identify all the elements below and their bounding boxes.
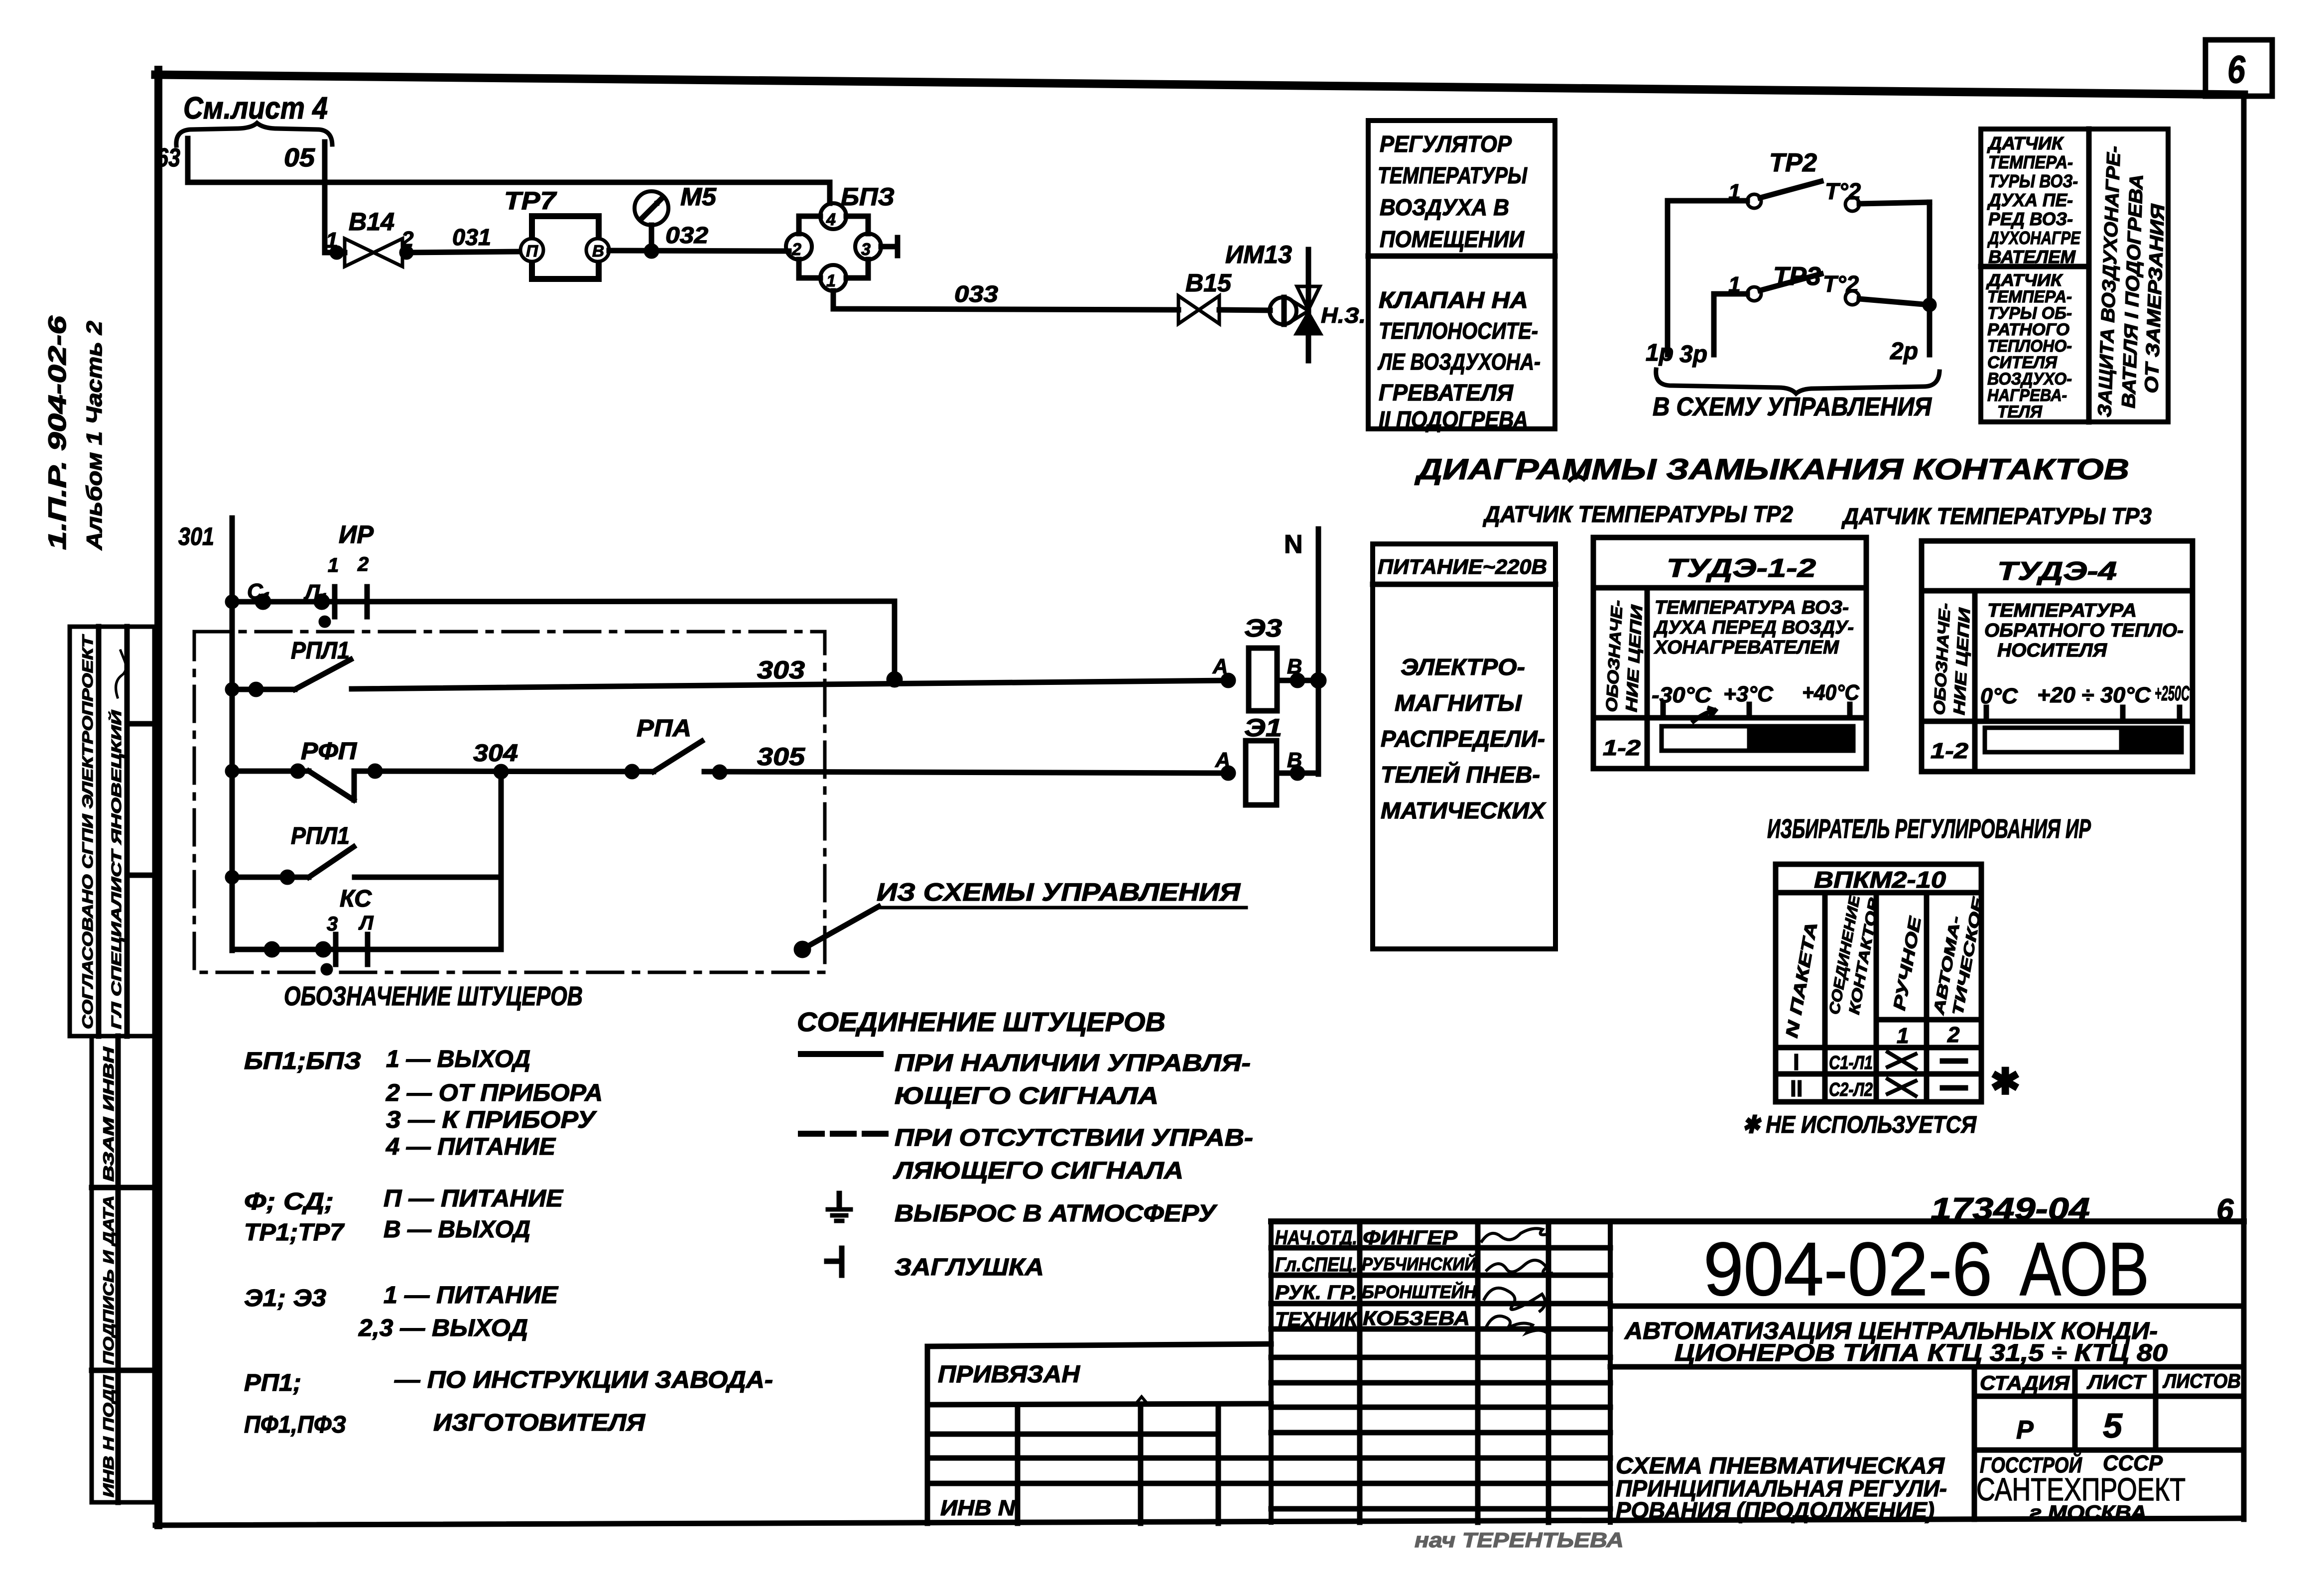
title block sign table columns [1360, 1221, 1549, 1522]
svg-text:301: 301 [178, 523, 214, 550]
wire 033 [833, 281, 1178, 310]
svg-text:ЛИСТ: ЛИСТ [2086, 1371, 2147, 1393]
svg-text:НАЧ.ОТД.: НАЧ.ОТД. [1275, 1227, 1357, 1249]
svg-text:1 — ПИТАНИЕ: 1 — ПИТАНИЕ [384, 1282, 559, 1309]
svg-text:2р: 2р [1890, 338, 1918, 365]
wire from brace left down [185, 138, 191, 182]
svg-text:ТЕХНИК: ТЕХНИК [1275, 1309, 1358, 1330]
svg-text:ТЕЛЯ: ТЕЛЯ [1997, 402, 2043, 421]
svg-text:1: 1 [1897, 1024, 1909, 1048]
svg-text:II ПОДОГРЕВА: II ПОДОГРЕВА [1379, 406, 1528, 432]
svg-text:2: 2 [357, 553, 369, 575]
svg-text:ВАТЕЛЕМ: ВАТЕЛЕМ [1988, 247, 2076, 267]
contact RPA / wire 305 [637, 715, 1228, 777]
svg-text:2: 2 [401, 227, 414, 252]
svg-text:031: 031 [452, 224, 491, 250]
svg-text:ИНВ N: ИНВ N [940, 1496, 1016, 1520]
role technician [1275, 1308, 1546, 1333]
svg-text:1 — ВЫХОД: 1 — ВЫХОД [386, 1046, 530, 1072]
svg-text:ТЕМПЕРАТУРЫ: ТЕМПЕРАТУРЫ [1378, 162, 1528, 188]
project code 904-02-6 AOV [1610, 1227, 2244, 1312]
wire 301 vertical bus [230, 518, 235, 950]
wire right leg 2p [1927, 202, 1933, 355]
svg-text:904-02-6: 904-02-6 [1703, 1227, 1992, 1312]
svg-text:СОГЛАСОВАНО СГПИ ЭЛЕКТРОПРОЕКТ: СОГЛАСОВАНО СГПИ ЭЛЕКТРОПРОЕКТ [80, 634, 96, 1029]
svg-text:63: 63 [156, 143, 180, 172]
node 3p [1679, 341, 1707, 368]
svg-text:КЛАПАН НА: КЛАПАН НА [1379, 287, 1528, 313]
svg-text:В14: В14 [349, 208, 394, 236]
heading contact closure diagrams [1414, 453, 2129, 486]
svg-text:РПА: РПА [637, 715, 691, 742]
organization [1976, 1451, 2186, 1524]
svg-text:РУЧНОЕ: РУЧНОЕ [1890, 915, 1925, 1012]
legend dashed line symbol [801, 1125, 1253, 1184]
role group leader [1275, 1281, 1545, 1311]
svg-text:4 — ПИТАНИЕ: 4 — ПИТАНИЕ [386, 1134, 556, 1160]
legend solid line symbol [801, 1050, 1251, 1109]
label See sheet 4 [183, 91, 328, 126]
svg-text:— ПО ИНСТРУКЦИИ ЗАВОДА-: — ПО ИНСТРУКЦИИ ЗАВОДА- [394, 1367, 773, 1393]
svg-text:РПЛ1: РПЛ1 [291, 823, 350, 849]
device TP7 [504, 187, 609, 279]
svg-text:N: N [1284, 530, 1303, 559]
svg-text:✱ НЕ ИСПОЛЬЗУЕТСЯ: ✱ НЕ ИСПОЛЬЗУЕТСЯ [1742, 1112, 1977, 1138]
svg-text:1: 1 [1728, 272, 1740, 297]
svg-text:ТР2: ТР2 [1769, 148, 1817, 177]
frame border bottom [155, 1518, 2244, 1525]
wire 031 [406, 224, 520, 253]
frame border left [154, 70, 162, 1525]
drawing name [1616, 1453, 1947, 1523]
svg-text:032: 032 [665, 222, 708, 248]
svg-text:РАСПРЕДЕЛИ-: РАСПРЕДЕЛИ- [1381, 726, 1545, 752]
label to control circuit [1653, 393, 1932, 421]
svg-text:ОБОЗНАЧЕ-: ОБОЗНАЧЕ- [1930, 603, 1954, 716]
svg-text:305: 305 [757, 743, 805, 771]
svg-text:СОЕДИНЕНИЕ ШТУЦЕРОВ: СОЕДИНЕНИЕ ШТУЦЕРОВ [797, 1007, 1165, 1037]
rotated label frost protection [2094, 145, 2169, 417]
node 2p [1890, 338, 1918, 365]
svg-text:ДАТЧИК ТЕМПЕРАТУРЫ ТР2: ДАТЧИК ТЕМПЕРАТУРЫ ТР2 [1482, 501, 1793, 527]
svg-text:1-2: 1-2 [1603, 736, 1641, 760]
margin note album part [43, 315, 107, 550]
svg-text:+20 ÷ 30°С: +20 ÷ 30°С [2037, 683, 2151, 707]
svg-text:В: В [1287, 748, 1302, 772]
svg-text:РЕД ВОЗ-: РЕД ВОЗ- [1988, 209, 2073, 229]
title block sign table rows [1271, 1248, 1610, 1509]
svg-text:3: 3 [327, 913, 338, 935]
svg-text:МАТИЧЕСКИХ: МАТИЧЕСКИХ [1381, 797, 1546, 823]
svg-text:ИЗ СХЕМЫ УПРАВЛЕНИЯ: ИЗ СХЕМЫ УПРАВЛЕНИЯ [877, 878, 1241, 906]
svg-text:ЛЕ ВОЗДУХОНА-: ЛЕ ВОЗДУХОНА- [1377, 349, 1541, 375]
wire TP7 to M5 junction [609, 246, 789, 256]
svg-text:6: 6 [2227, 47, 2246, 91]
svg-text:ОБОЗНАЧЕНИЕ ШТУЦЕРОВ: ОБОЗНАЧЕНИЕ ШТУЦЕРОВ [284, 981, 583, 1011]
svg-text:1: 1 [1728, 180, 1740, 204]
frame border top [155, 75, 2244, 95]
wire B15 to IM13 [1219, 310, 1270, 310]
svg-text:БРОНШТЕЙН: БРОНШТЕЙН [1362, 1281, 1477, 1302]
svg-text:ПФ1,ПФЗ: ПФ1,ПФЗ [244, 1412, 346, 1438]
svg-text:ПОДПИСЬ И ДАТА: ПОДПИСЬ И ДАТА [101, 1195, 117, 1365]
svg-text:РП1;: РП1; [244, 1370, 301, 1396]
wire branch vertical [499, 772, 504, 949]
svg-text:ТЕМПЕРАТУРА: ТЕМПЕРАТУРА [1987, 600, 2137, 621]
svg-text:1.П.Р. 904-02-6: 1.П.Р. 904-02-6 [43, 315, 71, 550]
side stamp approval box [70, 627, 154, 1036]
svg-text:ТУДЭ-4: ТУДЭ-4 [1997, 557, 2117, 586]
svg-text:ВПКМ2-10: ВПКМ2-10 [1814, 867, 1946, 893]
legend heading fitting connection [797, 1007, 1165, 1037]
svg-text:ЮЩЕГО СИГНАЛА: ЮЩЕГО СИГНАЛА [895, 1083, 1159, 1109]
svg-text:ХОНАГРЕВАТЕЛЕМ: ХОНАГРЕВАТЕЛЕМ [1654, 637, 1839, 658]
svg-text:П — ПИТАНИЕ: П — ПИТАНИЕ [384, 1186, 564, 1212]
svg-text:Р: Р [2016, 1416, 2034, 1445]
svg-text:ПРИВЯЗАН: ПРИВЯЗАН [938, 1361, 1080, 1388]
svg-text:Л: Л [358, 912, 374, 934]
svg-text:ДУХА ПЕРЕД ВОЗДУ-: ДУХА ПЕРЕД ВОЗДУ- [1653, 617, 1854, 638]
svg-text:ПОМЕЩЕНИИ: ПОМЕЩЕНИИ [1380, 226, 1525, 252]
legend BP1 BP3 row [244, 1046, 603, 1160]
svg-text:П: П [526, 242, 538, 260]
svg-text:✱: ✱ [1990, 1062, 2020, 1102]
brace under See sheet 4 [176, 123, 332, 145]
svg-text:ДИАГРАММЫ ЗАМЫКАНИЯ КОНТАКТО: ДИАГРАММЫ ЗАМЫКАНИЯ КОНТАКТОВ [1414, 453, 2129, 486]
dash-dot enclosure [194, 632, 825, 972]
svg-text:НИЕ ЦЕПИ: НИЕ ЦЕПИ [1622, 604, 1646, 713]
svg-text:В — ВЫХОД: В — ВЫХОД [384, 1216, 530, 1243]
note not used [1742, 1112, 1977, 1138]
svg-text:Н.З.: Н.З. [1321, 303, 1366, 328]
legend heading fitting designation [284, 981, 583, 1011]
contact TP2 [1668, 148, 1930, 211]
svg-text:РУБЧИНСКИЙ: РУБЧИНСКИЙ [1362, 1253, 1477, 1274]
heading regulation selector IR [1767, 814, 2091, 844]
svg-text:КОБЗЕВА: КОБЗЕВА [1363, 1308, 1470, 1329]
svg-text:ДУХОНАГРЕ: ДУХОНАГРЕ [1987, 228, 2081, 248]
solenoid E3 [1212, 614, 1324, 711]
contact RPL1 upper / wire 303 [228, 638, 1228, 694]
legend E1 E3 rows [244, 1282, 559, 1341]
svg-text:1: 1 [328, 554, 339, 576]
contact KS rung [232, 886, 501, 973]
svg-text:1: 1 [326, 228, 338, 253]
title block outline [1271, 1221, 2244, 1522]
svg-text:ИМ13: ИМ13 [1225, 241, 1292, 268]
svg-text:ТЕМПЕРА-: ТЕМПЕРА- [1988, 152, 2073, 172]
page number 6 [2216, 1193, 2234, 1227]
svg-text:РФП: РФП [301, 738, 358, 765]
wire left leg 1p [1665, 201, 1671, 355]
svg-text:I: I [1793, 1049, 1800, 1075]
brace to control circuit [1656, 370, 1939, 394]
svg-text:ПРИ НАЛИЧИИ УПРАВЛЯ-: ПРИ НАЛИЧИИ УПРАВЛЯ- [895, 1050, 1251, 1076]
svg-text:КС: КС [340, 886, 372, 912]
document number 17349-04 [1931, 1192, 2090, 1226]
asterisk mark [1990, 1062, 2020, 1102]
linked-project box [927, 1344, 1271, 1523]
legend plug symbol [827, 1248, 1044, 1281]
svg-text:ГРЕВАТЕЛЯ: ГРЕВАТЕЛЯ [1379, 380, 1514, 405]
svg-text:ЛИСТОВ: ЛИСТОВ [2162, 1370, 2241, 1392]
svg-text:С2-Л2: С2-Л2 [1829, 1079, 1873, 1100]
frame border right [2241, 94, 2247, 1519]
sheet number box 6 [2205, 40, 2272, 96]
svg-text:3р: 3р [1679, 341, 1707, 368]
svg-text:Гл.СПЕЦ.: Гл.СПЕЦ. [1275, 1254, 1357, 1276]
callout from control circuit [796, 878, 1246, 955]
svg-text:Ф; СД;: Ф; СД; [244, 1189, 334, 1215]
svg-text:С1-Л1: С1-Л1 [1829, 1053, 1873, 1073]
svg-text:05: 05 [284, 143, 315, 172]
svg-text:РЕГУЛЯТОР: РЕГУЛЯТОР [1380, 131, 1512, 157]
valve B15 [1178, 269, 1232, 324]
svg-text:нач ТЕРЕНТЬЕВА: нач ТЕРЕНТЬЕВА [1415, 1528, 1624, 1552]
svg-text:2 — ОТ ПРИБОРА: 2 — ОТ ПРИБОРА [386, 1080, 603, 1106]
table TUDE-4 [1922, 541, 2193, 772]
svg-text:ВОЗДУХА В: ВОЗДУХА В [1380, 194, 1509, 220]
svg-text:АОВ: АОВ [2020, 1227, 2149, 1312]
svg-text:2: 2 [791, 240, 801, 259]
svg-text:г МОСКВА: г МОСКВА [2030, 1502, 2147, 1524]
svg-text:ТЕМПЕРАТУРА ВОЗ-: ТЕМПЕРАТУРА ВОЗ- [1655, 597, 1849, 618]
svg-text:В15: В15 [1185, 269, 1232, 297]
plug on port 3 [881, 238, 898, 256]
sensor description box [1981, 129, 2168, 422]
svg-text:ТЕЛЕЙ ПНЕВ-: ТЕЛЕЙ ПНЕВ- [1381, 762, 1540, 788]
contact TP3 [1714, 262, 1934, 309]
subheading sensor TP2 [1482, 476, 1793, 527]
svg-text:М5: М5 [680, 183, 717, 211]
node 63 [156, 143, 180, 172]
svg-text:В: В [1287, 655, 1302, 678]
node 05 [284, 143, 315, 172]
svg-text:А: А [1215, 748, 1230, 772]
svg-text:А: А [1212, 655, 1228, 678]
svg-text:Э1; Э3: Э1; Э3 [244, 1285, 326, 1312]
legend vent to atmosphere symbol [828, 1193, 1218, 1227]
svg-text:Альбом 1 Часть 2: Альбом 1 Часть 2 [82, 320, 107, 550]
node 1p [1646, 340, 1674, 366]
subheading sensor TP3 [1841, 503, 2152, 529]
svg-text:ИНВ Н ПОДП: ИНВ Н ПОДП [101, 1374, 117, 1497]
svg-text:1-2: 1-2 [1931, 739, 1969, 763]
svg-text:ДАТЧИК: ДАТЧИК [1987, 133, 2065, 153]
svg-text:Л₁: Л₁ [303, 580, 328, 605]
svg-text:ВЗАМ ИНВН: ВЗАМ ИНВН [101, 1046, 117, 1182]
svg-text:II: II [1790, 1075, 1803, 1101]
svg-text:ВЫБРОС В АТМОСФЕРУ: ВЫБРОС В АТМОСФЕРУ [895, 1200, 1218, 1227]
svg-text:См.лист 4: См.лист 4 [183, 91, 328, 126]
svg-text:ДАТЧИК ТЕМПЕРАТУРЫ ТР3: ДАТЧИК ТЕМПЕРАТУРЫ ТР3 [1841, 503, 2152, 529]
annotation box regulator/valve [1368, 121, 1555, 432]
svg-text:ОБОЗНАЧЕ-: ОБОЗНАЧЕ- [1602, 600, 1626, 713]
svg-text:В СХЕМУ УПРАВЛЕНИЯ: В СХЕМУ УПРАВЛЕНИЯ [1653, 393, 1932, 421]
svg-text:5: 5 [2103, 1406, 2123, 1445]
table TUDE-1-2 [1593, 537, 1866, 769]
legend RP1 PF rows [244, 1367, 773, 1438]
svg-text:БП1;БПЗ: БП1;БПЗ [244, 1048, 361, 1074]
valve B14 [325, 208, 414, 266]
svg-text:ЛЯЮЩЕГО СИГНАЛА: ЛЯЮЩЕГО СИГНАЛА [893, 1158, 1183, 1184]
block BP3 [786, 183, 895, 291]
svg-text:+40°С: +40°С [1802, 680, 1860, 705]
svg-text:2,3 — ВЫХОД: 2,3 — ВЫХОД [358, 1315, 528, 1341]
svg-text:В: В [592, 242, 604, 260]
legend F SD TR rows [244, 1186, 564, 1246]
svg-text:ТР7: ТР7 [504, 187, 557, 215]
svg-text:3: 3 [861, 240, 871, 259]
svg-text:N ПАКЕТА: N ПАКЕТА [1782, 921, 1821, 1039]
svg-text:НОСИТЕЛЯ: НОСИТЕЛЯ [1997, 640, 2107, 661]
wire N [1284, 529, 1318, 774]
svg-text:033: 033 [954, 281, 998, 307]
svg-text:+250С: +250С [2155, 681, 2190, 705]
svg-text:РПЛ1: РПЛ1 [291, 638, 350, 664]
svg-text:Э3: Э3 [1244, 614, 1282, 642]
svg-text:РУК. ГР.: РУК. ГР. [1275, 1282, 1357, 1304]
table VPKM2-10 [1776, 864, 1987, 1102]
svg-text:СХЕМА ПНЕВМАТИЧЕСКАЯ: СХЕМА ПНЕВМАТИЧЕСКАЯ [1616, 1453, 1945, 1478]
node 301 [178, 523, 214, 550]
side stamp lower box [92, 1036, 154, 1502]
svg-text:1р: 1р [1646, 340, 1674, 366]
svg-text:НИЕ ЦЕПИ: НИЕ ЦЕПИ [1950, 607, 1973, 716]
svg-text:С₁: С₁ [247, 579, 270, 604]
svg-text:ЭЛЕКТРО-: ЭЛЕКТРО- [1401, 654, 1525, 680]
svg-text:Т°2: Т°2 [1823, 271, 1859, 297]
svg-text:1: 1 [826, 271, 836, 290]
stage sheet cells [1974, 1367, 2244, 1519]
linked-project grid [927, 1405, 1271, 1523]
svg-text:ГЛ СПЕЦИАЛИСТ ЯНОВЕЦКИЙ: ГЛ СПЕЦИАЛИСТ ЯНОВЕЦКИЙ [108, 710, 124, 1029]
wire 032 label [665, 222, 708, 248]
svg-text:ОБРАТНОГО ТЕПЛО-: ОБРАТНОГО ТЕПЛО- [1984, 620, 2184, 641]
svg-text:ТУДЭ-1-2: ТУДЭ-1-2 [1667, 554, 1816, 583]
svg-text:ЗАГЛУШКА: ЗАГЛУШКА [895, 1254, 1044, 1281]
handwritten registrar note [1415, 1528, 1624, 1552]
power supply box [1373, 544, 1555, 949]
svg-text:Э1: Э1 [1244, 714, 1282, 742]
svg-text:304: 304 [473, 740, 518, 767]
gauge M5 [635, 183, 717, 248]
svg-text:ТР1;ТР7: ТР1;ТР7 [244, 1219, 345, 1246]
svg-text:3 — К ПРИБОРУ: 3 — К ПРИБОРУ [386, 1107, 597, 1133]
svg-text:Т°2: Т°2 [1825, 178, 1861, 204]
svg-text:ИР: ИР [339, 521, 374, 548]
svg-text:ПИТАНИЕ~220В: ПИТАНИЕ~220В [1378, 555, 1547, 578]
svg-text:БПЗ: БПЗ [841, 183, 895, 211]
project title automation [1610, 1318, 2244, 1367]
svg-text:ИЗБИРАТЕЛЬ РЕГУЛИРОВАНИЯ ИР: ИЗБИРАТЕЛЬ РЕГУЛИРОВАНИЯ ИР [1767, 814, 2091, 844]
role chief specialist [1275, 1253, 1551, 1276]
wire 05 horizontal [188, 182, 830, 203]
actuator IM13 [1225, 241, 1366, 361]
svg-text:ДУХА ПЕ-: ДУХА ПЕ- [1987, 190, 2073, 210]
svg-text:ЦИОНЕРОВ ТИПА КТЦ 31,5 ÷ КТ: ЦИОНЕРОВ ТИПА КТЦ 31,5 ÷ КТЦ 80 [1675, 1340, 2168, 1366]
svg-text:2: 2 [1947, 1023, 1960, 1047]
rung IR selector [228, 521, 895, 625]
svg-text:ИЗГОТОВИТЕЛЯ: ИЗГОТОВИТЕЛЯ [433, 1410, 646, 1436]
svg-text:303: 303 [757, 656, 805, 684]
wire leg 3p [1711, 294, 1717, 355]
svg-text:СТАДИЯ: СТАДИЯ [1980, 1372, 2070, 1394]
solenoid E1 [1215, 714, 1318, 805]
svg-text:4: 4 [826, 210, 836, 229]
svg-text:ТУРЫ ВОЗ-: ТУРЫ ВОЗ- [1988, 171, 2078, 191]
svg-text:МАГНИТЫ: МАГНИТЫ [1395, 690, 1522, 716]
svg-text:ТЕПЛОНОСИТЕ-: ТЕПЛОНОСИТЕ- [1379, 318, 1538, 344]
contact RPL1 lower [228, 823, 501, 882]
svg-text:ФИНГЕР: ФИНГЕР [1363, 1227, 1457, 1249]
wire IR drop to 303 [889, 601, 900, 685]
svg-text:РОВАНИЯ (ПРОДОЛЖЕНИЕ): РОВАНИЯ (ПРОДОЛЖЕНИЕ) [1616, 1497, 1935, 1523]
contact RFP / wire 304 [228, 738, 653, 800]
svg-text:ПРИ ОТСУТСТВИИ УПРАВ-: ПРИ ОТСУТСТВИИ УПРАВ- [895, 1125, 1253, 1151]
wire from brace right down to valve [322, 142, 328, 253]
role head of department [1275, 1227, 1547, 1249]
